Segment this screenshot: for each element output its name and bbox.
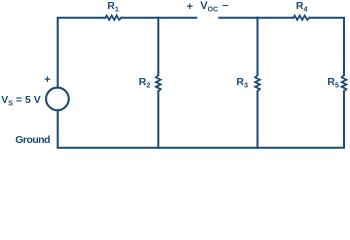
resistor R4 — [293, 16, 309, 20]
wire R4 to right top corner and down to R5 — [309, 18, 344, 75]
svg-text:R2: R2 — [139, 76, 151, 90]
wire R3 branch bottom — [257, 91, 259, 148]
svg-text:+: + — [44, 74, 50, 86]
svg-text:R3: R3 — [236, 76, 248, 90]
wire top-left from source to R1 — [58, 18, 106, 88]
voltage source VS circle — [46, 88, 69, 111]
svg-text:R5: R5 — [327, 76, 339, 90]
wire R5 to bottom right corner, bottom wire, up to source bottom — [58, 91, 344, 148]
resistor R1 — [105, 16, 121, 20]
resistor R3 — [255, 75, 260, 91]
svg-text:−: − — [222, 0, 228, 12]
svg-text:VOC: VOC — [200, 0, 218, 14]
resistor R5 — [342, 75, 347, 91]
svg-text:VS = 5 V: VS = 5 V — [1, 94, 41, 108]
wire Voc gap to R4 — [219, 17, 293, 19]
wire R2 branch top — [157, 18, 159, 75]
svg-text:+: + — [187, 1, 193, 13]
svg-text:Ground: Ground — [15, 134, 50, 146]
wire R1 to Voc gap — [121, 17, 196, 19]
svg-text:R4: R4 — [296, 0, 308, 14]
wire R3 branch top — [257, 18, 259, 75]
svg-text:R1: R1 — [107, 0, 119, 14]
wire R2 branch bottom — [157, 91, 159, 148]
resistor R2 — [156, 75, 161, 91]
